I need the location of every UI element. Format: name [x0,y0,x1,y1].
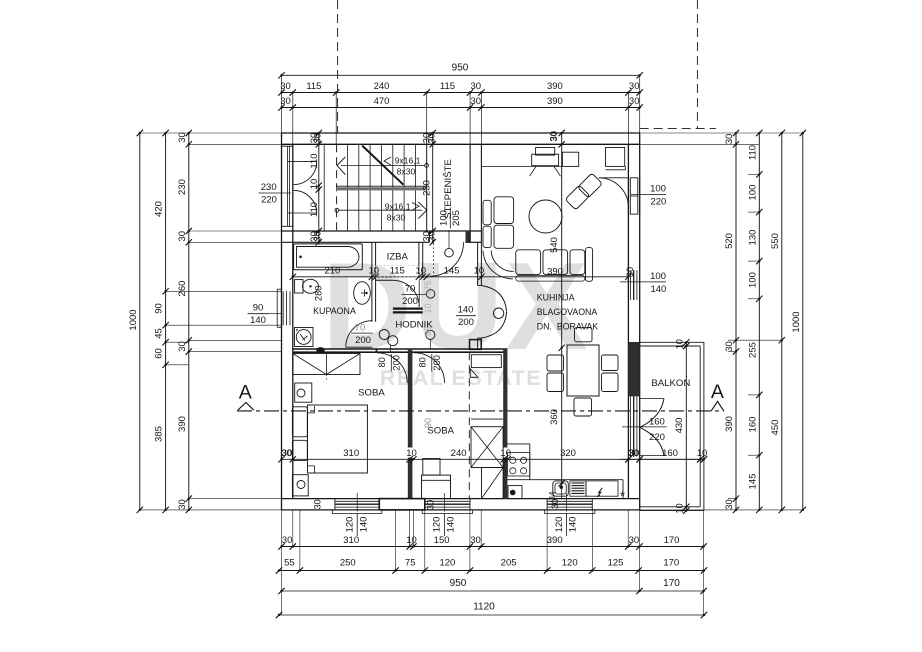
label SOBA2 [427,426,454,437]
svg-text:30: 30 [177,231,188,242]
svg-text:390: 390 [547,81,563,92]
svg-text:100: 100 [747,185,758,201]
svg-text:255: 255 [747,342,758,358]
wall izba bottom [376,277,393,280]
kitchen hob [507,453,529,477]
svg-text:390: 390 [724,416,735,432]
svg-text:30: 30 [427,231,437,241]
door hodnik-living double 140/200 [481,286,506,339]
svg-text:30: 30 [280,81,291,92]
label STEPENISTE [443,159,454,219]
section letter A left [238,382,254,411]
svg-text:385: 385 [154,426,165,442]
pillow soba1 a [292,407,307,437]
label window 100/140 [620,271,666,295]
dim right chain1 [724,130,739,513]
section line A-A [237,410,724,412]
chimney flue block [470,340,482,350]
svg-text:140: 140 [250,315,266,326]
svg-text:130: 130 [747,230,758,246]
svg-text:120: 120 [432,517,443,533]
svg-text:10: 10 [406,535,417,546]
svg-text:10: 10 [675,339,685,349]
svg-text:30: 30 [313,231,323,241]
stairs text lower [385,201,419,222]
label door 160/220 [622,416,667,443]
svg-text:145: 145 [444,265,460,276]
svg-text:10: 10 [369,265,380,276]
washbasin [354,282,371,305]
svg-text:30: 30 [724,134,735,145]
svg-text:30: 30 [427,133,437,143]
dim bottom chainD [278,578,707,594]
label KUPAONA [313,306,356,316]
dim top 950 [278,63,643,134]
dim right chain4 [791,130,806,513]
wall stepeniste-living [470,144,481,242]
svg-text:30: 30 [313,133,323,143]
door french jambs [282,146,293,226]
label window 100/220 [631,184,666,208]
watermark DUX [322,238,590,376]
symbol asterisk [620,489,625,504]
door french left arc top [294,162,317,185]
labels 30 on walls [281,131,560,510]
svg-text:30: 30 [470,535,481,546]
label door soba2 80/200 [418,330,442,371]
svg-text:30: 30 [724,499,735,510]
sofa cushion d [543,250,568,275]
svg-text:30: 30 [177,341,188,352]
symbol lightning [597,488,602,497]
sofa corner arc inner [491,251,513,272]
kitchen cabinet [586,481,618,496]
chair left a [547,355,564,371]
svg-text:30: 30 [629,96,640,107]
window kupaona 90/140 [277,289,290,327]
bathtub [294,244,363,270]
stairs arrow down flight [335,202,427,219]
wall stair-block bottom [282,231,482,242]
line niche front [323,144,325,231]
label door 230/220 [259,182,292,206]
sofa corner arc outer [483,251,513,279]
svg-text:10: 10 [474,265,485,276]
dim balcony width line [620,448,707,463]
svg-text:950: 950 [452,63,469,74]
label door 140/200 [456,304,476,328]
izba threshold [393,309,423,313]
wall soba divider dark [408,349,413,499]
svg-text:140: 140 [446,517,457,533]
label HODNIK [395,320,433,331]
svg-text:115: 115 [390,265,405,276]
label 280 kupaona [313,286,323,302]
svg-text:SOBA: SOBA [427,426,454,437]
sofa cushion b [494,225,514,248]
svg-text:80: 80 [418,357,428,367]
stairs arrow up flight [337,157,429,175]
svg-text:540: 540 [549,237,560,253]
svg-text:30: 30 [281,448,292,459]
sofa cushion a [494,197,514,224]
svg-text:220: 220 [261,195,277,206]
svg-text:10: 10 [406,448,417,459]
left extension lines [140,133,282,510]
door balcony 160/220 [631,396,665,456]
svg-text:150: 150 [434,535,450,546]
svg-text:55: 55 [284,558,295,569]
stairs treads [348,144,416,231]
armchair b [578,173,603,198]
chair left b [547,373,564,392]
svg-text:120: 120 [562,558,578,569]
svg-text:175: 175 [423,280,433,295]
svg-text:30: 30 [550,499,560,509]
sofa cushion e [570,250,585,275]
svg-text:100: 100 [438,210,449,226]
svg-text:310: 310 [343,448,359,459]
svg-text:160: 160 [662,448,678,459]
svg-text:230: 230 [261,182,277,193]
svg-text:220: 220 [649,432,665,443]
svg-text:280: 280 [313,286,323,302]
armchair a [565,185,590,210]
dim top chain3 [278,96,643,111]
wall kupaona east [372,242,376,321]
desk soba2 [470,355,501,378]
dim left chain2 [154,130,169,513]
svg-text:240: 240 [374,81,390,92]
balcony railing [640,342,704,510]
shelf line living [481,165,562,167]
dim top chain2 [278,81,643,144]
dim right chain3 [770,130,785,513]
svg-text:200: 200 [355,335,371,346]
svg-text:200: 200 [402,296,418,307]
wall hodnik-living [478,242,482,348]
gray dims hodnik [423,280,433,428]
svg-text:120: 120 [554,517,565,533]
svg-text:170: 170 [663,578,680,589]
wall pier bottom heavy [379,499,425,510]
chair right b [602,373,619,392]
svg-text:450: 450 [770,420,781,436]
dashed line upper outline left [337,0,339,133]
bed soba2 [422,475,451,499]
svg-text:30: 30 [548,131,558,141]
svg-text:520: 520 [724,233,735,249]
wall kupaona bottom [293,349,376,352]
svg-text:140: 140 [358,517,369,533]
svg-text:BALKON: BALKON [651,378,690,389]
svg-text:115: 115 [440,81,455,92]
kitchen sink [548,481,568,501]
svg-text:140: 140 [568,517,579,533]
wall izba east [419,242,423,277]
coffee table round [529,200,562,233]
svg-text:30: 30 [629,81,640,92]
sofa back strip b [483,226,491,247]
svg-text:125: 125 [608,558,624,569]
chair right a [602,355,619,371]
svg-text:HODNIK: HODNIK [395,320,433,331]
door kupaona 70/200 [346,321,373,348]
svg-text:140: 140 [458,304,474,315]
svg-text:205: 205 [501,558,517,569]
svg-text:200: 200 [458,317,474,328]
svg-text:70: 70 [405,283,416,294]
wardrobe soba1 [293,354,360,382]
svg-text:STEPENIŠTE: STEPENIŠTE [443,159,454,219]
svg-text:A: A [239,382,252,404]
sofa armrest right [586,248,593,282]
svg-text:145: 145 [747,474,758,490]
kitchen corner cabinet [606,148,626,170]
svg-text:120: 120 [345,517,356,533]
svg-text:310: 310 [343,535,359,546]
stairs break line [362,146,403,185]
svg-text:110: 110 [309,153,320,168]
dim chain niche 30/110/10/110/30 [309,130,322,246]
right extension lines [640,133,803,510]
window kuhinja bottom 120/140 [545,499,595,514]
svg-text:260: 260 [177,281,188,297]
svg-text:250: 250 [340,558,356,569]
svg-text:110: 110 [309,202,320,217]
window soba2 bottom 120/140 [422,499,472,514]
svg-text:8x30: 8x30 [387,213,406,223]
wall exterior top [282,133,640,144]
dim chain stair 30/230/30 [422,130,436,246]
chair top [575,328,593,342]
svg-text:110: 110 [747,145,758,160]
svg-text:10: 10 [423,303,433,313]
dim chain balcony 10/430/10 [674,339,690,514]
sofa cushion c [516,250,541,275]
svg-text:240: 240 [451,448,467,459]
svg-text:120: 120 [439,558,455,569]
svg-text:30: 30 [471,81,482,92]
svg-text:90: 90 [253,303,264,314]
bed soba1 [308,405,368,473]
line stair right edge [426,144,428,231]
door french left arc bottom [294,190,317,213]
dim chain living 30/540/360 [549,130,565,499]
svg-text:IZBA: IZBA [387,252,409,263]
svg-text:390: 390 [547,96,563,107]
label door 100/205 [438,208,462,258]
svg-text:10: 10 [309,179,320,190]
washing machine [295,328,314,347]
kitchen counter left [507,444,529,480]
svg-text:320: 320 [560,448,576,459]
dashed line soba2 [468,352,470,498]
chair bottom [574,398,592,416]
svg-text:30: 30 [282,535,293,546]
svg-text:90: 90 [154,303,165,314]
dim left chain3 [128,130,143,513]
svg-text:75: 75 [405,558,416,569]
dim right chain2 [747,130,762,513]
label DN BORAVAK [537,322,598,332]
tv cabinet [530,148,561,177]
svg-text:160: 160 [649,416,665,427]
wardrobe soba2 [471,419,503,499]
window living 100/220 [628,178,639,214]
wall soba2-kitchen dark [503,349,507,499]
door soba1 80/200 [377,353,407,383]
label door kupaona 70/200 [351,323,373,346]
cabinet a [562,152,578,166]
label BLAGOVAONA [537,307,598,317]
svg-text:30: 30 [177,499,188,510]
svg-text:45: 45 [154,328,165,339]
svg-text:9x16,1: 9x16,1 [385,201,411,211]
svg-text:9x16,1: 9x16,1 [395,156,421,166]
label door izba 70/200 [402,283,435,307]
svg-text:80: 80 [377,357,387,367]
dim bottom chainC [276,558,707,574]
svg-text:30: 30 [471,96,482,107]
svg-text:430: 430 [674,418,685,434]
label window 90/140 [248,303,282,327]
svg-text:30: 30 [177,132,188,143]
section letter A right [711,381,724,411]
sofa back strip a [483,200,491,225]
kitchen corner appliance [508,486,522,499]
svg-text:220: 220 [650,197,666,208]
dim line interior y459 [278,448,707,463]
wall niche-stair edge [336,144,338,231]
wall exterior bottom [282,499,640,510]
label SOBA1 [358,388,385,399]
svg-text:550: 550 [770,233,781,249]
dim bottom chainE [276,602,707,619]
kitchen drainer [570,481,586,496]
svg-text:70: 70 [355,323,366,334]
sofa front strip [516,276,585,282]
svg-text:30: 30 [625,267,635,277]
door top-right leaf [599,178,629,208]
svg-text:390: 390 [547,535,563,546]
svg-text:30: 30 [724,341,735,352]
svg-text:10: 10 [416,265,427,276]
svg-text:470: 470 [374,96,390,107]
svg-text:A: A [711,381,724,403]
wall hodnik bottom dark [376,349,508,352]
nightstand soba2 [423,459,440,476]
svg-text:1000: 1000 [128,309,139,330]
label window3 120/140 [554,493,579,536]
svg-text:30: 30 [628,448,639,459]
svg-text:BLAGOVAONA: BLAGOVAONA [537,307,598,317]
svg-text:950: 950 [450,578,467,589]
svg-text:1120: 1120 [473,602,495,613]
label KUHINJA [537,293,575,303]
svg-text:390: 390 [177,416,188,432]
svg-text:DN. BORAVAK: DN. BORAVAK [537,322,598,332]
wall pier dark right [628,342,639,396]
stairs mid landing line [336,186,427,189]
door french left leaf bottom [288,212,317,214]
door stepeniste 100/205 [430,242,464,276]
svg-text:140: 140 [650,284,666,295]
svg-text:170: 170 [664,535,680,546]
izba niche dashed [376,266,419,277]
label window1 120/140 [345,493,370,536]
svg-text:10: 10 [500,448,511,459]
wall exterior left [282,133,293,510]
svg-text:8x30: 8x30 [397,167,416,177]
window kuhinja east 100/140 [628,268,637,302]
svg-text:230: 230 [177,179,188,195]
svg-text:230: 230 [422,180,433,196]
dim line interior y277 [290,265,636,280]
svg-text:KUPAONA: KUPAONA [313,306,356,316]
svg-text:200: 200 [392,355,402,371]
svg-text:KUHINJA: KUHINJA [537,293,575,303]
svg-text:100: 100 [650,184,666,195]
svg-text:205: 205 [451,210,462,226]
svg-text:*: * [620,489,625,504]
svg-text:30: 30 [629,535,640,546]
svg-text:170: 170 [663,558,679,569]
door french left leaf top [288,161,317,163]
svg-text:SOBA: SOBA [358,388,385,399]
dim left chain1 [177,130,192,513]
wall exterior right [628,133,639,510]
dashed line upper outline right [696,0,698,129]
svg-text:1000: 1000 [791,311,802,332]
dim bottom chainB [278,535,707,550]
nightstand soba1 top [295,383,312,402]
svg-text:100: 100 [747,272,758,288]
dashed line upper outline horiz [640,128,716,130]
svg-text:160: 160 [747,417,758,433]
svg-text:30: 30 [313,499,323,509]
svg-text:115: 115 [306,81,321,92]
svg-text:60: 60 [154,348,165,359]
svg-text:30: 30 [426,500,436,510]
label window2 120/140 [432,493,457,536]
label IZBA [387,252,409,263]
door izba 70/200 [393,280,419,307]
svg-text:10: 10 [675,503,685,513]
blob door-stop [316,347,324,353]
door soba2 80/200 [415,353,445,383]
pillow soba1 b [292,440,307,460]
bottom extension lines [282,510,704,615]
svg-text:100: 100 [650,271,666,282]
kitchen counter bottom [507,480,623,499]
svg-text:200: 200 [432,355,442,371]
window soba1 bottom 120/140 [332,499,382,514]
toilet [295,279,319,293]
dining table [567,345,599,396]
label door soba1 80/200 [377,330,401,372]
nightstand soba1 bottom [292,475,308,496]
svg-text:420: 420 [154,201,165,217]
stairs text upper [384,156,421,177]
label BALKON [651,378,690,389]
watermark REAL ESTATE [380,366,542,390]
svg-text:30: 30 [280,96,291,107]
